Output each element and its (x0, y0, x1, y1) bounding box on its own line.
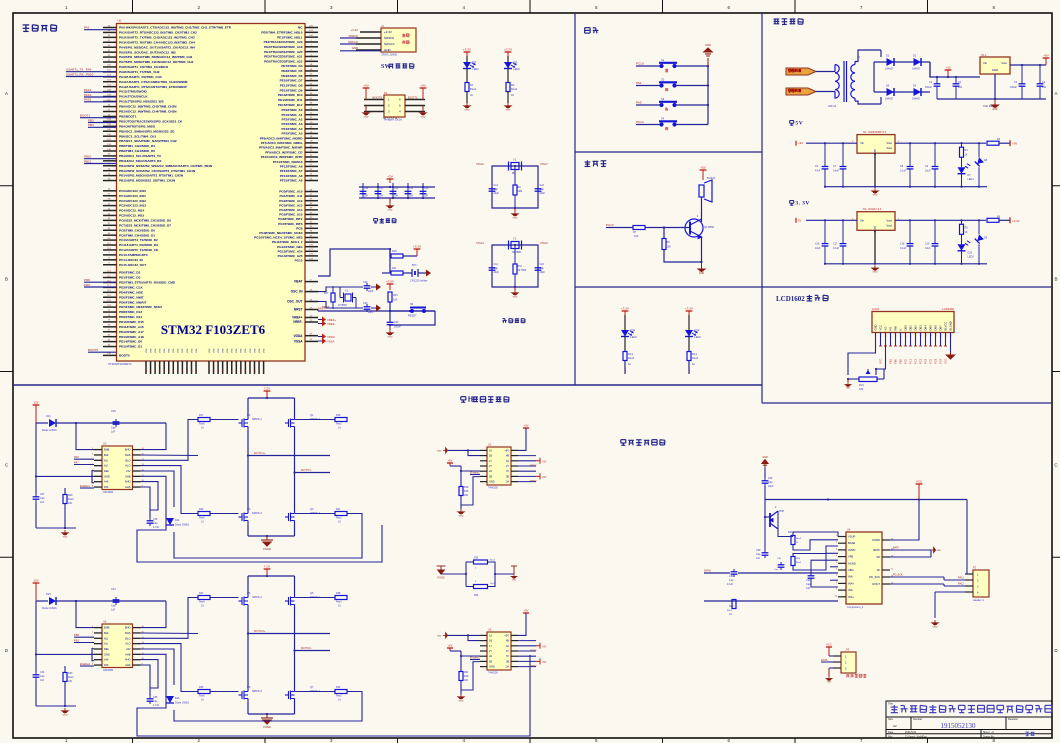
svg-text:R23: R23 (788, 531, 793, 534)
svg-text:2Y: 2Y (489, 465, 492, 468)
svg-text:U5: U5 (103, 620, 107, 624)
svg-text:+3.3V: +3.3V (384, 30, 392, 34)
svg-text:VSS: VSS (232, 348, 234, 353)
svg-text:+5V: +5V (542, 646, 547, 649)
svg-text:VCC: VCC (826, 643, 832, 647)
svg-text:VSS: VSS (250, 348, 252, 353)
svg-text:NC: NC (298, 26, 303, 30)
svg-text:U3: U3 (103, 442, 107, 446)
svg-text:C13: C13 (409, 188, 414, 190)
svg-text:GND: GND (873, 195, 878, 197)
svg-text:PG9/FSMC_NE2/FSMC_NCE3: PG9/FSMC_NE2/FSMC_NCE3 (259, 231, 302, 235)
STM32 left pin names and stubs (103, 25, 232, 357)
svg-text:GND: GND (874, 324, 878, 330)
svg-text:PG13/FSMC_A24: PG13/FSMC_A24 (278, 249, 303, 253)
svg-text:PD_SCK: PD_SCK (893, 574, 903, 577)
svg-text:PB0/ADC12_IN8/TIM3_CH3/TIM8_CH: PB0/ADC12_IN8/TIM3_CH3/TIM8_CH2N (119, 105, 177, 109)
svg-text:LED1: LED1 (968, 178, 975, 181)
svg-text:PG1/FSMC_A11: PG1/FSMC_A11 (279, 194, 302, 198)
svg-text:BATF: BATF (873, 548, 880, 552)
svg-text:Res3: Res3 (336, 601, 342, 604)
svg-text:GND: GND (388, 209, 393, 211)
power port VREF+ (318, 319, 322, 321)
svg-text:PB8/TIM4_CH3/SDIO_D4: PB8/TIM4_CH3/SDIO_D4 (119, 144, 155, 148)
svg-text:VSS: VSS (209, 348, 211, 353)
bridge mid rails MOTO+ (247, 609, 249, 687)
capacitor C27 104 (35, 476, 37, 494)
svg-text:D10: D10 (968, 251, 973, 254)
MOSFET Q4 NMOS-3 (239, 509, 249, 525)
bridge rectifier D1 D2 D5 D6 (880, 50, 882, 57)
bridge bottom rail and PGND (247, 525, 249, 536)
svg-text:BOOT1: BOOT1 (408, 96, 418, 100)
svg-text:ALO: ALO (125, 464, 130, 468)
svg-text:PG14/FSMC_A25: PG14/FSMC_A25 (278, 254, 303, 258)
svg-text:VSUP: VSUP (848, 535, 856, 539)
MOSFET Q6 NMOS-1 (239, 593, 249, 609)
svg-text:BOOT0: BOOT0 (88, 348, 99, 352)
svg-text:D14: D14 (175, 519, 180, 522)
LED D3 (466, 56, 468, 62)
wires from transformer to bridge (855, 50, 881, 62)
buzzer BUZZ1 (699, 180, 712, 202)
svg-text:PB1: PB1 (74, 639, 79, 643)
svg-text:A: A (1054, 91, 1057, 96)
svg-text:Cap: Cap (111, 427, 116, 430)
7.2V power flag bridge MOTO2 (266, 569, 268, 576)
svg-text:4Y: 4Y (506, 650, 509, 653)
+9V flag right (1045, 58, 1047, 65)
svg-text:PE10/FSMC_D7: PE10/FSMC_D7 (280, 79, 303, 83)
svg-text:1uF: 1uF (111, 609, 116, 612)
svg-text:NMOS-1: NMOS-1 (252, 418, 262, 421)
svg-text:MOTO1+: MOTO1+ (254, 451, 266, 455)
svg-text:DB3: DB3 (919, 325, 923, 331)
svg-text:Res3: Res3 (336, 517, 342, 520)
svg-text:22pF: 22pF (368, 311, 374, 314)
svg-text:Res6: Res6 (199, 695, 205, 698)
gate resistor R35 (198, 690, 210, 694)
svg-text:1B: 1B (489, 640, 492, 643)
series resistor R3 (987, 141, 999, 145)
svg-text:GND: GND (388, 336, 393, 338)
svg-text:Cap: Cap (540, 267, 545, 270)
title block (886, 701, 1052, 738)
svg-text:R30: R30 (68, 672, 73, 675)
svg-text:R15: R15 (464, 490, 469, 493)
wire DEL pin (92, 471, 94, 483)
capacitor C20 22pF (366, 283, 368, 286)
P1 right wires BOOT1 (405, 99, 425, 101)
svg-text:1K: 1K (511, 94, 514, 97)
diode D14 1N916 (166, 518, 174, 525)
GND pin wire and symbol (874, 230, 876, 263)
svg-text:VSS: VSS (173, 348, 175, 353)
logic IC U6 74HC08 (487, 632, 511, 670)
svg-text:Cap: Cap (40, 675, 45, 678)
gate resistor R27 Res6 10 (198, 596, 210, 600)
svg-text:4Y: 4Y (506, 465, 509, 468)
svg-text:Revision: Revision (1008, 717, 1019, 721)
svg-text:C34: C34 (40, 671, 45, 674)
svg-text:100uF: 100uF (925, 86, 932, 89)
+3.3V flag above LED D11 (624, 311, 626, 315)
svg-text:PA6: PA6 (74, 455, 79, 459)
svg-text:S3: S3 (661, 97, 665, 101)
svg-text:R25: R25 (474, 558, 479, 560)
svg-text:BUZZ1: BUZZ1 (707, 176, 716, 180)
svg-text:XTAL6: XTAL6 (476, 162, 484, 166)
+5V flag above buzzer (702, 170, 704, 180)
svg-text:104: 104 (40, 501, 45, 504)
GND below P1 right (422, 106, 424, 111)
net label MOTO1- (295, 472, 331, 474)
svg-text:ENable2: ENable2 (80, 662, 91, 666)
input label +9V (795, 141, 797, 146)
svg-text:Cap: Cap (540, 188, 545, 191)
svg-text:PB11/I2C2_SDA/USART3_RX: PB11/I2C2_SDA/USART3_RX (119, 159, 162, 163)
series resistor R6 (987, 218, 999, 222)
svg-text:32768Hz: 32768Hz (338, 305, 348, 307)
+3V flag left of P1 (365, 87, 367, 89)
svg-text:2021/5/31: 2021/5/31 (905, 731, 917, 734)
svg-text:BT1: BT1 (412, 264, 417, 267)
svg-text:BHB: BHB (104, 448, 110, 452)
svg-text:C35: C35 (153, 696, 158, 699)
svg-text:1B: 1B (489, 455, 492, 458)
svg-text:PD13/FSMC_A18: PD13/FSMC_A18 (119, 335, 144, 339)
svg-text:Res2: Res2 (692, 356, 699, 360)
svg-text:3Y: 3Y (506, 655, 509, 658)
svg-text:D12: D12 (695, 328, 700, 332)
resistor R1 1K (466, 69, 468, 83)
svg-text:4.7uF: 4.7uF (153, 526, 160, 529)
svg-text:P3: P3 (846, 648, 850, 652)
resistor R13 (624, 337, 626, 352)
svg-text:C16: C16 (815, 242, 820, 245)
svg-text:2Y: 2Y (489, 650, 492, 653)
svg-text:Cap: Cap (729, 579, 734, 582)
svg-text:PC10: PC10 (636, 62, 644, 66)
pull resistor R31 10K (460, 656, 462, 672)
svg-text:PB0: PB0 (894, 359, 898, 364)
svg-text:HIP4082: HIP4082 (103, 668, 114, 672)
section divider horizontal y=385 (13, 384, 762, 386)
power port VSSA (318, 340, 322, 342)
svg-text:PD11/FSMC_A16: PD11/FSMC_A16 (119, 325, 144, 329)
svg-text:NMOS-3: NMOS-3 (252, 690, 262, 693)
svg-text:DB1: DB1 (909, 325, 913, 331)
svg-text:PC13-TAMPER-RTC: PC13-TAMPER-RTC (119, 253, 149, 257)
svg-text:MOTO1-: MOTO1- (301, 468, 312, 472)
crystal X1 32768Hz with R17 (318, 287, 363, 292)
svg-text:CR1220 holder: CR1220 holder (410, 279, 428, 283)
svg-text:AHI: AHI (104, 480, 109, 484)
svg-text:PF13/FSMC_A7: PF13/FSMC_A7 (280, 169, 303, 173)
gate resistor R21 right (335, 512, 347, 516)
svg-text:1A: 1A (489, 449, 492, 452)
svg-text:C20: C20 (363, 281, 368, 284)
svg-text:PA6/SPI1_MISO/TIM8_BKIN/ADC12_: PA6/SPI1_MISO/TIM8_BKIN/ADC12_IN6/TIM3_C… (119, 55, 193, 59)
svg-text:PB5: PB5 (899, 359, 903, 364)
svg-text:AHI: AHI (104, 658, 109, 662)
wire 2B to down (461, 662, 480, 690)
svg-text:R28: R28 (336, 592, 341, 595)
svg-text:1K: 1K (965, 154, 968, 157)
svg-text:22pF: 22pF (768, 485, 774, 488)
svg-text:Header 3X2A: Header 3X2A (384, 118, 402, 122)
resistor R14 (688, 337, 690, 352)
7.2V power flag bridge MOTO1 (266, 391, 268, 398)
svg-text:SWDIO: SWDIO (384, 36, 395, 40)
svg-text:GND: GND (465, 109, 470, 111)
svg-text:104: 104 (958, 86, 963, 89)
svg-text:STM32 F103ZET6: STM32 F103ZET6 (161, 322, 266, 337)
svg-text:A2: A2 (893, 724, 897, 728)
driver output wire bundle (141, 601, 167, 628)
long wires to logic (174, 514, 362, 559)
svg-text:GND: GND (104, 652, 110, 656)
svg-text:+3.3V: +3.3V (685, 307, 693, 311)
GND right of resistor pair (513, 566, 515, 574)
resistor R9 10K pulldown (663, 228, 665, 239)
svg-text:VSS: VSS (146, 348, 148, 353)
driver output wire bundle (141, 423, 167, 450)
svg-text:PB13/SPI2_SCK/I2S2_CK/USART3_C: PB13/SPI2_SCK/I2S2_CK/USART3_CTS/TIM1_CH… (119, 169, 196, 173)
svg-text:104: 104 (1042, 86, 1047, 89)
top horizontal rail of pressure module (765, 499, 967, 501)
svg-text:PC10/UART4_TX/SDIO_D2: PC10/UART4_TX/SDIO_D2 (119, 238, 158, 242)
svg-text:PB4/JNTRST/SPI3_MISO: PB4/JNTRST/SPI3_MISO (119, 124, 156, 128)
svg-text:R26: R26 (729, 605, 734, 608)
svg-text:PGND: PGND (438, 577, 445, 580)
VCC flag above P3 (828, 646, 830, 648)
svg-text:10uF: 10uF (925, 247, 931, 250)
svg-text:PC5: PC5 (929, 358, 933, 364)
svg-text:4B: 4B (506, 455, 509, 458)
left net label wires of STM32 (84, 29, 117, 31)
svg-text:PC9/TIM8_CH4/SDIO_D1: PC9/TIM8_CH4/SDIO_D1 (119, 233, 155, 237)
svg-text:INA-: INA- (848, 588, 853, 592)
svg-text:PF5/FSMC_A5: PF5/FSMC_A5 (282, 132, 303, 136)
svg-text:PD3/FSMC_CLK: PD3/FSMC_CLK (119, 285, 143, 289)
svg-text:1Y: 1Y (489, 645, 492, 648)
svg-text:PF1/FSMC_A1: PF1/FSMC_A1 (282, 113, 303, 117)
+3.3V flag above LED D3 (466, 52, 468, 56)
svg-text:PE11/FSMC_D8: PE11/FSMC_D8 (280, 84, 303, 88)
svg-text:PE2/TRACECK/FSMC_A23: PE2/TRACECK/FSMC_A23 (264, 40, 303, 44)
svg-text:22pF: 22pF (494, 271, 500, 274)
svg-text:GND: GND (936, 550, 941, 552)
svg-text:C22: C22 (540, 184, 545, 187)
svg-text:PB10/I2C2_SCL/USART3_TX: PB10/I2C2_SCL/USART3_TX (119, 154, 162, 158)
svg-text:GND: GND (762, 456, 768, 459)
svg-text:PF14/FSMC_A8: PF14/FSMC_A8 (280, 174, 303, 178)
pull resistor R19 10K (460, 471, 462, 487)
net label below D11 (624, 361, 626, 375)
svg-text:U1-1: U1-1 (981, 53, 987, 57)
right side net stubs (518, 640, 536, 642)
svg-text:PD10/FSMC_D15: PD10/FSMC_D15 (119, 320, 144, 324)
svg-text:VSS: VSS (227, 348, 229, 353)
svg-text:MOTO2+: MOTO2+ (254, 629, 266, 633)
svg-text:VBG: VBG (848, 568, 854, 572)
12V power flag MOTO1 (35, 405, 37, 423)
MOSFET Q3 NMOS-4 (285, 509, 295, 525)
switch S5 RESET (390, 310, 435, 312)
svg-text:1K: 1K (729, 613, 732, 616)
svg-text:+3V: +3V (363, 84, 368, 88)
svg-text:XTAL4: XTAL4 (476, 241, 484, 245)
svg-text:DB2: DB2 (914, 325, 918, 331)
svg-text:Component_1: Component_1 (847, 605, 864, 609)
PNP transistor (770, 511, 778, 529)
net label MOTO1+ (248, 455, 330, 457)
capacitor C26 22pF (764, 468, 766, 479)
svg-text:PG2/FSMC_A12: PG2/FSMC_A12 (279, 199, 302, 203)
svg-text:PD4/FSMC_NOE: PD4/FSMC_NOE (119, 290, 143, 294)
+3.3V flag above LED D12 (688, 311, 690, 315)
svg-text:PF10/ADC3_IN8/FSMC_INTR: PF10/ADC3_IN8/FSMC_INTR (261, 155, 304, 159)
svg-text:0.4uF: 0.4uF (833, 170, 840, 173)
svg-text:DATA: DATA (821, 658, 828, 662)
STM32 bottom power pins (146, 348, 266, 374)
svg-text:VCC: VCC (879, 325, 883, 331)
P1 left wires BOOT0 (364, 99, 384, 101)
GND below D4 (507, 92, 509, 104)
svg-text:PA8/USART1_CK/TIM1_CH1/MCO: PA8/USART1_CK/TIM1_CH1/MCO (119, 65, 169, 69)
svg-text:B: B (5, 277, 8, 282)
svg-text:LCD1: LCD1 (872, 307, 880, 311)
+5V flag left of U6 (449, 647, 451, 649)
svg-text:USART1_RX PA10: USART1_RX PA10 (66, 72, 94, 76)
svg-text:VSS: VSS (213, 348, 215, 353)
wire VCC rail to P2 pin1 (965, 500, 967, 575)
svg-text:PG0/FSMC_A10: PG0/FSMC_A10 (279, 190, 302, 194)
svg-text:PD8: PD8 (84, 278, 90, 282)
svg-text:MOTO2-: MOTO2- (301, 646, 312, 650)
VCC flag (918, 484, 920, 500)
svg-text:PE3/TRACED0/FSMC_A19: PE3/TRACED0/FSMC_A19 (264, 45, 303, 49)
svg-text:GND: GND (489, 481, 495, 484)
title buzzer (585, 160, 607, 166)
GND below P1 left (365, 106, 367, 111)
svg-text:D11: D11 (631, 328, 636, 332)
svg-text:E: E (899, 329, 903, 331)
title minimal system (23, 25, 57, 32)
diode D16 1N916 (166, 696, 174, 703)
svg-text:Number: Number (913, 717, 922, 721)
svg-text:74HC08: 74HC08 (488, 671, 498, 675)
svg-text:Res2: Res2 (490, 560, 496, 562)
svg-text:VSSA: VSSA (327, 340, 335, 344)
svg-text:INA+: INA+ (848, 595, 854, 599)
svg-text:Date:: Date: (888, 731, 894, 734)
capacitor C9 47uF (824, 143, 826, 164)
svg-text:PE9/FSMC_D6: PE9/FSMC_D6 (281, 74, 302, 78)
output wire (895, 142, 986, 144)
resistor R25 (474, 560, 488, 564)
svg-text:VSS: VSS (178, 348, 180, 353)
MOSFET Q2 NMOS-1 (239, 415, 249, 431)
svg-text:OSC_OUT: OSC_OUT (287, 300, 302, 304)
+3V flag above filter bank (389, 179, 391, 183)
capacitor C3 100uF (936, 77, 938, 81)
svg-text:PA14: PA14 (84, 93, 91, 97)
svg-text:RS: RS (889, 327, 893, 331)
GND left of potentiometer (847, 378, 849, 380)
power port VREF- (318, 323, 322, 325)
svg-text:R14: R14 (692, 352, 697, 356)
GND below R30 (62, 708, 69, 713)
IC U0 STM32F103ZET6 body (117, 24, 306, 362)
svg-text:LED0: LED0 (695, 336, 702, 339)
svg-text:AVDD: AVDD (848, 548, 855, 552)
svg-text:PF4/FSMC_A4: PF4/FSMC_A4 (282, 127, 303, 131)
title crystal circuit (503, 319, 526, 323)
svg-text:PGND: PGND (263, 547, 271, 551)
svg-text:R19: R19 (464, 486, 469, 489)
svg-text:Vout: Vout (1001, 61, 1007, 65)
svg-text:ALI: ALI (104, 464, 108, 468)
svg-text:BHS: BHS (125, 631, 131, 635)
svg-text:PWM1: PWM1 (530, 650, 537, 652)
svg-text:1N4007: 1N4007 (912, 98, 921, 101)
svg-text:D16: D16 (175, 697, 180, 700)
svg-text:+5V: +5V (504, 449, 509, 452)
svg-text:PF7/ADC3_IN5/FSMC_NREG: PF7/ADC3_IN5/FSMC_NREG (261, 141, 303, 145)
svg-text:Vout: Vout (886, 141, 892, 145)
svg-text:N2 LM1117-3.3: N2 LM1117-3.3 (863, 207, 882, 211)
svg-text:PF0/FSMC_A0: PF0/FSMC_A0 (282, 108, 303, 112)
capacitor C7 0.4uF (842, 143, 844, 164)
output flag +3.3V (1009, 217, 1011, 223)
svg-text:GND: GND (933, 626, 938, 628)
component_1 sensor chip body (846, 532, 882, 604)
svg-text:Cap: Cap (806, 583, 811, 586)
GND below D3 (466, 92, 468, 104)
svg-text:Res6: Res6 (199, 601, 205, 604)
svg-text:PD1/FSMC_D3: PD1/FSMC_D3 (119, 276, 141, 280)
svg-text:VCC: VCC (944, 358, 948, 364)
svg-text:GND: GND (506, 109, 511, 111)
svg-text:R22: R22 (199, 508, 204, 511)
svg-text:D4: D4 (514, 60, 518, 64)
svg-text:GND: GND (364, 116, 369, 118)
svg-text:BOOT0: BOOT0 (373, 96, 383, 100)
svg-text:PB3/JTDO/TRACESWO/SPI3_SCK/I2S: PB3/JTDO/TRACESWO/SPI3_SCK/I2S3_CK (119, 119, 183, 123)
GND below filter bank (389, 198, 391, 203)
svg-text:C32: C32 (806, 579, 811, 582)
svg-text:+3.3V: +3.3V (621, 307, 629, 311)
svg-text:BHO: BHO (125, 448, 131, 452)
svg-text:7.2V: 7.2V (264, 387, 270, 391)
svg-text:D13: D13 (46, 415, 51, 418)
svg-text:2B: 2B (489, 475, 492, 478)
keys GND rail (707, 66, 709, 125)
svg-text:C10: C10 (364, 188, 369, 190)
capacitor C17 0.1uF (842, 220, 844, 241)
resistor R5 1K with LED D10 (961, 220, 963, 224)
svg-text:VBAT: VBAT (294, 280, 302, 284)
svg-text:PA5: PA5 (636, 101, 642, 105)
svg-text:RW: RW (894, 326, 898, 331)
diode D13 1N916 (36, 422, 48, 424)
svg-text:R1: R1 (470, 83, 474, 87)
svg-text:GND: GND (489, 666, 495, 669)
svg-text:Cap: Cap (153, 700, 158, 703)
svg-text:PC11/UART4_RX/SDIO_D3: PC11/UART4_RX/SDIO_D3 (119, 243, 158, 247)
